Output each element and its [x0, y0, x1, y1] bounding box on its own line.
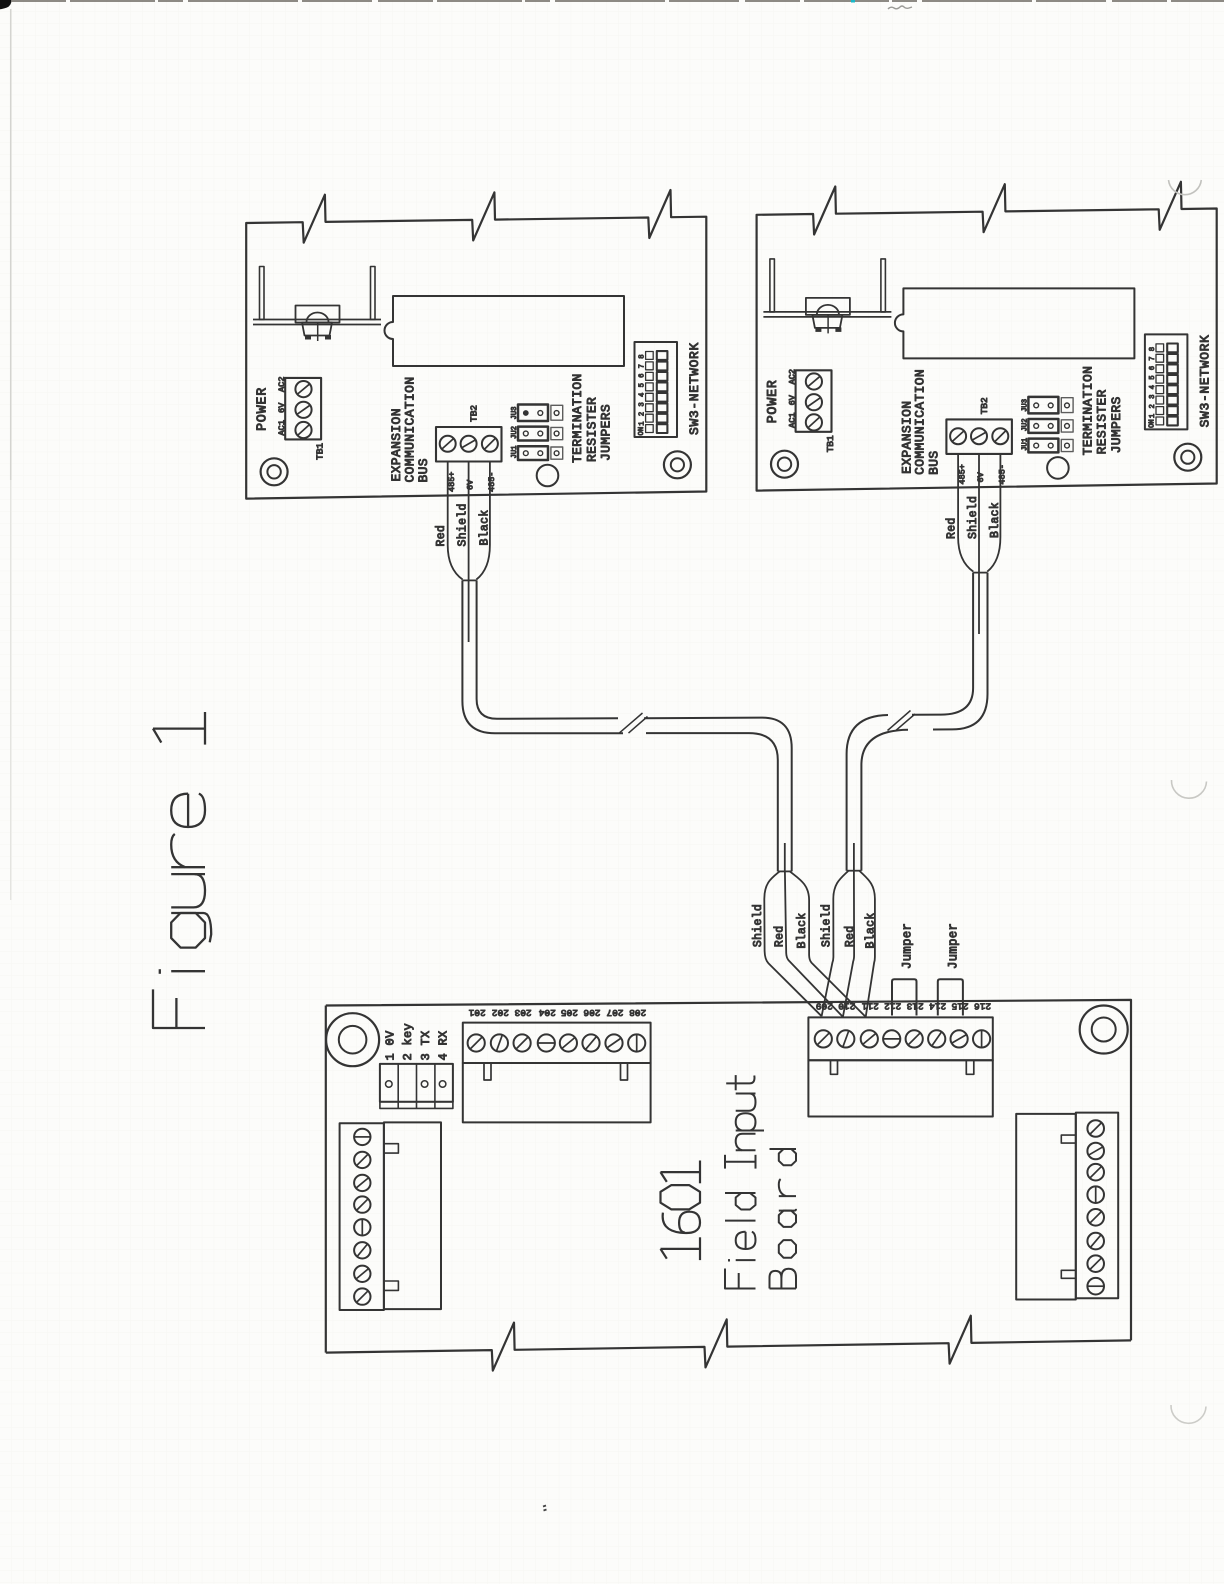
svg-text:203: 203: [514, 1007, 531, 1018]
terminal block TB2: [946, 419, 1012, 454]
terminal block TB2: [436, 427, 502, 462]
svg-text:1 0V: 1 0V: [383, 1030, 397, 1061]
svg-text:Black: Black: [865, 912, 878, 948]
svg-text:JU2: JU2: [1022, 418, 1030, 431]
svg-text:Shield: Shield: [752, 904, 765, 947]
svg-text:SW3-NETWORK: SW3-NETWORK: [687, 342, 702, 435]
svg-text:ON: ON: [638, 427, 646, 436]
cable 2 sheath: [973, 572, 987, 574]
cable 1 break mark: [620, 713, 648, 733]
cable1 Shield wire to terminal 209: [764, 871, 821, 1016]
power connector bracket: [260, 267, 265, 320]
svg-text:RESISTER: RESISTER: [1095, 389, 1110, 454]
expansion board 2: [757, 182, 1217, 491]
svg-text:204: 204: [538, 1007, 555, 1018]
IC chip U1: [895, 288, 1135, 358]
scan artefact: pencil squiggle: [888, 6, 912, 9]
wire 485+ from TB2 board2: [958, 454, 973, 572]
svg-text:208: 208: [629, 1007, 646, 1018]
DIP switch SW3: [635, 342, 678, 437]
svg-text:2: 2: [1149, 404, 1157, 408]
label Field Input: [725, 1075, 764, 1288]
scan speck: [543, 1506, 547, 1511]
terminal block 201-208: [463, 1023, 651, 1063]
svg-text:TB1: TB1: [314, 443, 325, 460]
svg-text:POWER: POWER: [255, 387, 270, 431]
svg-text:6: 6: [639, 374, 647, 378]
svg-text:JU1: JU1: [511, 446, 519, 459]
IC chip U1: [385, 296, 625, 366]
jumper JU2: [1028, 419, 1058, 433]
svg-text:7: 7: [639, 364, 647, 368]
svg-text:6V: 6V: [466, 479, 476, 490]
svg-text:COMMUNICATION: COMMUNICATION: [913, 369, 928, 475]
svg-text:5: 5: [1149, 375, 1157, 379]
jumper JU3: [1028, 397, 1058, 414]
cable2 Shield wire to terminal 209: [822, 871, 849, 1017]
jumper wire 212-213: [892, 979, 917, 1015]
jumper JU1: [1028, 439, 1058, 453]
svg-text:Jumper: Jumper: [946, 923, 960, 969]
caption Figure 1: [153, 712, 211, 1028]
svg-text:6V: 6V: [788, 394, 798, 405]
cable 1 sheath: [462, 579, 476, 581]
svg-text:Black: Black: [479, 509, 492, 545]
svg-text:8: 8: [639, 354, 647, 358]
jumper wire 214-215: [938, 979, 963, 1015]
left 8-pin connector: [340, 1123, 384, 1310]
jumper JU2: [518, 427, 548, 441]
svg-text:JUMPERS: JUMPERS: [1109, 396, 1124, 453]
terminal block TB1: [796, 370, 832, 432]
bracket centre screw part: [296, 306, 340, 323]
svg-text:Red: Red: [773, 925, 786, 947]
svg-text:AC2: AC2: [277, 377, 287, 392]
svg-text:6: 6: [1149, 366, 1157, 370]
svg-text:7: 7: [1149, 356, 1157, 360]
svg-text:1: 1: [639, 421, 647, 425]
svg-text:6V: 6V: [277, 402, 287, 413]
svg-text:TERMINATION: TERMINATION: [570, 373, 585, 463]
svg-text:215: 215: [951, 1001, 968, 1012]
bracket centre screw part: [806, 298, 850, 315]
mounting hole: [664, 451, 691, 478]
svg-text:1: 1: [1149, 414, 1157, 418]
wire 485+ from TB2 board1: [448, 462, 463, 580]
svg-text:Shield: Shield: [967, 496, 980, 539]
wire shield from TB2 board2: [978, 454, 980, 634]
svg-text:TB2: TB2: [979, 397, 990, 414]
svg-text:3 TX: 3 TX: [419, 1030, 433, 1060]
svg-text:4 RX: 4 RX: [437, 1030, 451, 1060]
board outline with break marks: [757, 182, 1217, 491]
svg-text:211: 211: [861, 1001, 878, 1012]
svg-text:201: 201: [468, 1007, 485, 1018]
svg-text:485+: 485+: [957, 464, 967, 484]
mounting hole: [1174, 444, 1201, 471]
svg-text:BUS: BUS: [927, 450, 942, 474]
scan artefact: top edge line: [11, 0, 1224, 2]
svg-text:JU2: JU2: [511, 426, 519, 439]
svg-text:JU3: JU3: [511, 407, 519, 420]
terminal block TB1: [285, 378, 321, 440]
svg-text:209: 209: [815, 1001, 832, 1012]
svg-text:2: 2: [639, 412, 647, 416]
label Board: [770, 1149, 797, 1289]
cable2 Black wire to terminal 211: [859, 871, 875, 1017]
svg-text:205: 205: [561, 1007, 578, 1018]
board hole: [537, 465, 559, 487]
svg-text:BUS: BUS: [416, 458, 431, 482]
svg-text:3: 3: [639, 402, 647, 406]
cable1 Black wire to terminal 211: [790, 871, 866, 1017]
svg-text:COMMUNICATION: COMMUNICATION: [402, 377, 417, 483]
label 1601: [661, 1161, 701, 1261]
svg-text:8: 8: [1149, 347, 1157, 351]
scan artefact: corner blob: [0, 0, 12, 9]
svg-text:JU1: JU1: [1022, 438, 1030, 451]
svg-text:Red: Red: [435, 525, 448, 547]
4 pin connector J1: [380, 1064, 453, 1102]
jumper JU1: [518, 446, 548, 460]
svg-text:6V: 6V: [976, 471, 986, 482]
board hole: [1047, 457, 1069, 479]
svg-text:3: 3: [1149, 395, 1157, 399]
svg-text:JU3: JU3: [1022, 399, 1030, 412]
svg-text:5: 5: [639, 383, 647, 387]
punch hole arcs: [1169, 180, 1202, 195]
svg-text:207: 207: [606, 1007, 623, 1018]
svg-text:485-: 485-: [998, 464, 1008, 484]
board outline with break marks: [246, 190, 706, 499]
svg-text:Black: Black: [796, 912, 809, 948]
cable2 Red wire to terminal 210: [843, 871, 854, 1017]
svg-text:216: 216: [974, 1001, 991, 1012]
1601 field input board outline with break marks: [326, 1000, 1131, 1341]
mounting hole top-right: [1080, 1006, 1128, 1054]
svg-text:Jumper: Jumper: [901, 923, 915, 969]
DIP switch SW3: [1145, 334, 1188, 429]
jumper JU3: [518, 405, 548, 422]
svg-text:TERMINATION: TERMINATION: [1080, 366, 1095, 456]
scan artefact: cyan dot: [851, 0, 855, 3]
svg-text:AC1: AC1: [788, 412, 798, 427]
wire 485- from TB2 board2: [987, 454, 1000, 572]
svg-text:202: 202: [492, 1007, 509, 1018]
right 8-pin connector: [1016, 1114, 1076, 1300]
svg-text:Shield: Shield: [820, 904, 833, 947]
svg-text:POWER: POWER: [766, 379, 781, 423]
scan artefact: left faint line: [10, 9, 12, 480]
svg-text:RESISTER: RESISTER: [584, 397, 599, 462]
svg-text:Red: Red: [945, 517, 958, 539]
cable 2 break mark: [888, 711, 916, 731]
svg-text:4: 4: [639, 393, 647, 397]
svg-text:Black: Black: [989, 502, 1002, 538]
mounting hole: [261, 458, 288, 485]
svg-text:2 key: 2 key: [401, 1023, 415, 1061]
svg-text:JUMPERS: JUMPERS: [599, 404, 614, 461]
svg-text:TB2: TB2: [468, 405, 479, 422]
power connector bracket: [770, 259, 775, 312]
terminal block 209-216: [808, 1017, 992, 1060]
wire 485- from TB2 board1: [476, 462, 490, 580]
svg-text:AC1: AC1: [277, 420, 287, 435]
mounting hole: [771, 451, 798, 478]
svg-text:485-: 485-: [487, 472, 497, 492]
svg-text:206: 206: [583, 1007, 600, 1018]
svg-text:SW3-NETWORK: SW3-NETWORK: [1197, 334, 1212, 427]
expansion board 1: [246, 190, 706, 499]
mounting hole top-left: [326, 1013, 379, 1066]
svg-text:TB1: TB1: [825, 435, 836, 452]
wire shield from TB2 board1: [468, 462, 470, 643]
cable1 Red wire to terminal 210: [785, 871, 843, 1017]
svg-text:4: 4: [1149, 385, 1157, 389]
svg-text:AC2: AC2: [788, 369, 798, 384]
svg-text:213: 213: [906, 1001, 923, 1012]
svg-text:210: 210: [838, 1001, 855, 1012]
svg-text:Shield: Shield: [457, 503, 470, 546]
svg-text:ON: ON: [1149, 419, 1157, 428]
svg-text:485+: 485+: [447, 472, 457, 492]
svg-text:Red: Red: [844, 925, 857, 947]
